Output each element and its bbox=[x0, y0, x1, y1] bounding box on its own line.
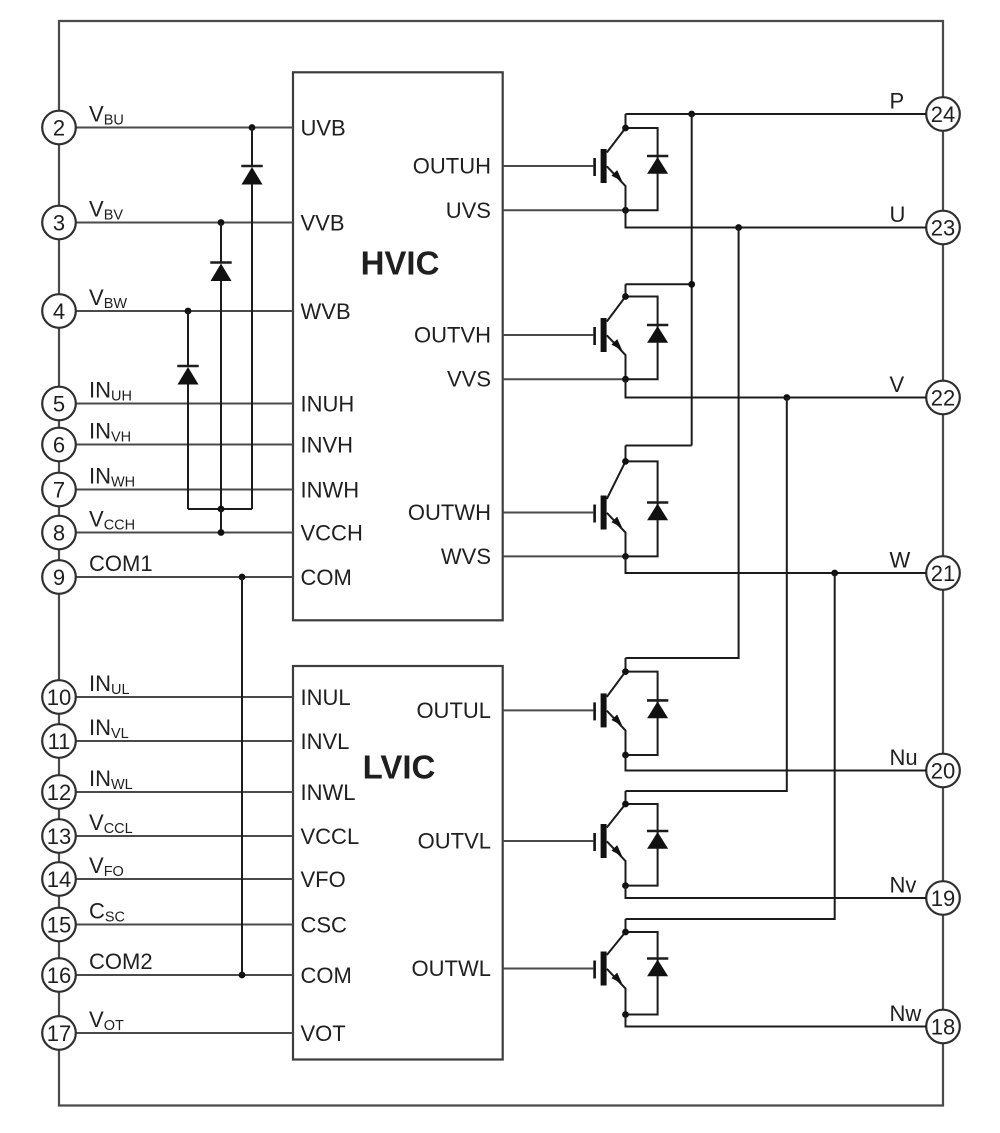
pin 9 terminal circle bbox=[42, 560, 76, 594]
op-amp U2 LVIC box bbox=[293, 666, 503, 1060]
wire Q2 emitter to V rail bbox=[626, 379, 927, 397]
wire gate OUTVH stub bbox=[503, 334, 594, 336]
svg-text:12: 12 bbox=[47, 780, 71, 805]
pin 3 terminal circle bbox=[42, 206, 76, 240]
wire pin14 to IC bbox=[76, 878, 294, 880]
wire pin4 to IC bbox=[76, 310, 294, 312]
svg-text:18: 18 bbox=[931, 1014, 955, 1039]
svg-text:WVB: WVB bbox=[301, 299, 351, 324]
wire pin2 to IC bbox=[76, 127, 294, 129]
node junction U phase bbox=[735, 224, 742, 231]
svg-text:24: 24 bbox=[931, 102, 955, 127]
wire VBW to diode D3 bbox=[187, 311, 189, 366]
svg-text:V: V bbox=[890, 372, 905, 397]
svg-text:INWH: INWH bbox=[301, 478, 360, 503]
wire COM1 to COM2 bbox=[241, 577, 243, 975]
diode D9 freewheel Q6 bbox=[647, 959, 668, 977]
svg-text:VFO: VFO bbox=[301, 867, 346, 892]
svg-text:15: 15 bbox=[47, 912, 71, 937]
svg-text:COM: COM bbox=[301, 565, 352, 590]
wire Q4 emitter to Nu bbox=[626, 755, 927, 771]
transistor Q3 IGBT high-side W bbox=[607, 446, 658, 557]
wire gate OUTWL stub bbox=[503, 968, 594, 970]
svg-text:20: 20 bbox=[931, 758, 955, 783]
wire pin13 to IC bbox=[76, 835, 294, 837]
svg-text:22: 22 bbox=[931, 385, 955, 410]
svg-text:Nu: Nu bbox=[890, 745, 918, 770]
node collector Q3 bbox=[622, 458, 629, 465]
svg-text:Nw: Nw bbox=[890, 1001, 922, 1026]
wire gate OUTUH stub bbox=[503, 165, 594, 167]
svg-text:16: 16 bbox=[47, 963, 71, 988]
wire V phase down bbox=[626, 398, 787, 792]
svg-text:INWL: INWL bbox=[301, 780, 356, 805]
wire VBU to diode D1 bbox=[251, 128, 253, 167]
svg-text:COM1: COM1 bbox=[89, 551, 153, 576]
wire pin9 to IC bbox=[76, 576, 294, 578]
diode D6 freewheel Q3 bbox=[647, 503, 668, 521]
wire pin6 to IC bbox=[76, 444, 294, 446]
node junction on VBU wire bbox=[249, 124, 256, 131]
svg-text:VCCL: VCCL bbox=[301, 824, 360, 849]
pin 21 terminal circle bbox=[926, 556, 960, 590]
svg-text:23: 23 bbox=[931, 215, 955, 240]
diode D8 freewheel Q5 bbox=[647, 831, 668, 849]
pin 15 terminal circle bbox=[42, 908, 76, 942]
wire V cell top rail bbox=[626, 283, 692, 285]
wire Q1 emitter to U rail bbox=[626, 210, 927, 227]
svg-text:OUTWH: OUTWH bbox=[408, 500, 491, 525]
pin 16 terminal circle bbox=[42, 958, 76, 992]
node collector Q2 bbox=[622, 293, 629, 300]
svg-text:7: 7 bbox=[53, 477, 65, 502]
svg-text:COM: COM bbox=[301, 963, 352, 988]
svg-text:OUTUH: OUTUH bbox=[413, 154, 491, 179]
node emitter Q6 bbox=[622, 1011, 629, 1018]
pin 12 terminal circle bbox=[42, 775, 76, 809]
node collector Q1 bbox=[622, 125, 629, 132]
node emitter Q4 bbox=[622, 752, 629, 759]
wire P bus vertical bbox=[691, 114, 693, 446]
wire WVS sense bbox=[503, 555, 626, 557]
transistor Q2 IGBT high-side V bbox=[607, 284, 658, 379]
diode D5 freewheel Q2 bbox=[647, 325, 668, 343]
svg-text:INVH: INVH bbox=[301, 433, 354, 458]
pin 22 terminal circle bbox=[926, 381, 960, 415]
node emitter Q5 bbox=[622, 882, 629, 889]
svg-text:9: 9 bbox=[53, 565, 65, 590]
op-amp U1 HVIC box bbox=[293, 72, 503, 620]
svg-text:VCCH: VCCH bbox=[301, 521, 363, 546]
svg-text:5: 5 bbox=[53, 391, 65, 416]
node junction on VBW wire bbox=[185, 308, 192, 315]
node junction on VCCH wire bbox=[218, 529, 225, 536]
pin 4 terminal circle bbox=[42, 294, 76, 328]
transistor Q4 IGBT low-side U bbox=[607, 658, 658, 755]
wire pin17 to IC bbox=[76, 1032, 294, 1034]
wire pin15 to IC bbox=[76, 924, 294, 926]
svg-text:LVIC: LVIC bbox=[363, 749, 436, 786]
wire gate OUTVL stub bbox=[503, 840, 594, 842]
svg-text:INUH: INUH bbox=[301, 392, 355, 417]
diode D1 bootstrap bbox=[241, 166, 262, 185]
node collector Q6 bbox=[622, 929, 629, 936]
node collector Q5 bbox=[622, 801, 629, 808]
diode D2 bootstrap bbox=[210, 263, 231, 282]
svg-text:OUTUL: OUTUL bbox=[416, 698, 491, 723]
pin 14 terminal circle bbox=[42, 862, 76, 896]
wire D3 anode down bbox=[187, 385, 189, 510]
wire diode-anode bus bbox=[188, 508, 252, 510]
svg-text:OUTVL: OUTVL bbox=[418, 829, 491, 854]
wire pin3 to IC bbox=[76, 222, 294, 224]
transistor Q5 IGBT low-side V bbox=[607, 791, 658, 886]
svg-text:CSC: CSC bbox=[301, 913, 348, 938]
svg-text:19: 19 bbox=[931, 886, 955, 911]
wire Q5 emitter to Nv bbox=[626, 886, 927, 898]
svg-text:21: 21 bbox=[931, 561, 955, 586]
svg-text:4: 4 bbox=[53, 299, 65, 324]
pin 23 terminal circle bbox=[926, 211, 960, 245]
svg-text:VOT: VOT bbox=[301, 1021, 346, 1046]
svg-text:11: 11 bbox=[48, 729, 71, 754]
pin 5 terminal circle bbox=[42, 387, 76, 421]
pin 10 terminal circle bbox=[42, 680, 76, 714]
wire pin12 to IC bbox=[76, 791, 294, 793]
wire anode bus to VCCH bbox=[220, 509, 222, 533]
node emitter Q3 bbox=[622, 553, 629, 560]
wire gate OUTUL stub bbox=[503, 709, 594, 711]
node emitter Q1 bbox=[622, 207, 629, 214]
svg-text:6: 6 bbox=[53, 432, 65, 457]
diode D7 freewheel Q4 bbox=[647, 700, 668, 718]
svg-text:VVB: VVB bbox=[301, 211, 345, 236]
wire D2 anode down bbox=[220, 281, 222, 509]
wire pin8 to IC bbox=[76, 532, 294, 534]
svg-text:10: 10 bbox=[47, 685, 71, 710]
svg-text:U: U bbox=[890, 202, 906, 227]
pin 20 terminal circle bbox=[926, 754, 960, 788]
wire W phase down bbox=[626, 573, 835, 919]
svg-text:UVS: UVS bbox=[446, 198, 491, 223]
pin 18 terminal circle bbox=[926, 1010, 960, 1044]
wire Q6 emitter to Nw bbox=[626, 1015, 927, 1027]
wire W cell top rail bbox=[626, 445, 692, 447]
wire U phase down bbox=[626, 228, 739, 659]
node junction W phase bbox=[831, 570, 838, 577]
wire gate OUTWH stub bbox=[503, 512, 594, 514]
svg-text:INVL: INVL bbox=[301, 729, 350, 754]
svg-text:13: 13 bbox=[47, 824, 71, 849]
wire Q3 emitter to W rail bbox=[626, 556, 927, 573]
node junction anode bus bbox=[218, 506, 225, 513]
svg-text:HVIC: HVIC bbox=[361, 245, 440, 282]
pin 8 terminal circle bbox=[42, 516, 76, 550]
wire pin5 to IC bbox=[76, 403, 294, 405]
node junction P bus bbox=[688, 111, 695, 118]
wire VVS sense bbox=[503, 378, 626, 380]
node junction on COM2 wire bbox=[239, 972, 246, 979]
svg-text:W: W bbox=[890, 548, 911, 573]
pin 7 terminal circle bbox=[42, 473, 76, 507]
wire pin11 to IC bbox=[76, 740, 294, 742]
node junction on VBV wire bbox=[218, 219, 225, 226]
pin 11 terminal circle bbox=[42, 724, 76, 758]
node emitter Q2 bbox=[622, 376, 629, 383]
svg-text:3: 3 bbox=[53, 210, 65, 235]
diode D3 bootstrap bbox=[177, 366, 198, 385]
wire VBV to diode D2 bbox=[220, 223, 222, 263]
pin 6 terminal circle bbox=[42, 428, 76, 462]
svg-text:14: 14 bbox=[47, 867, 71, 892]
pin 24 terminal circle bbox=[926, 97, 960, 131]
svg-text:Nv: Nv bbox=[890, 873, 917, 898]
svg-text:OUTVH: OUTVH bbox=[414, 323, 491, 348]
svg-text:UVB: UVB bbox=[301, 116, 346, 141]
wire P rail bbox=[626, 113, 927, 115]
node junction on COM1 wire bbox=[239, 574, 246, 581]
diode D4 freewheel Q1 bbox=[647, 156, 668, 174]
svg-text:VVS: VVS bbox=[447, 367, 491, 392]
svg-text:OUTWL: OUTWL bbox=[412, 956, 491, 981]
pin 19 terminal circle bbox=[926, 881, 960, 915]
pin 17 terminal circle bbox=[42, 1016, 76, 1050]
transistor Q1 IGBT high-side U bbox=[607, 114, 658, 210]
pin 2 terminal circle bbox=[42, 111, 76, 145]
wire D1 anode down bbox=[251, 184, 253, 509]
svg-text:8: 8 bbox=[53, 520, 65, 545]
wire pin7 to IC bbox=[76, 489, 294, 491]
svg-text:INUL: INUL bbox=[301, 685, 351, 710]
svg-text:COM2: COM2 bbox=[89, 949, 153, 974]
transistor Q6 IGBT low-side W bbox=[607, 919, 658, 1015]
wire pin10 to IC bbox=[76, 696, 294, 698]
node collector Q4 bbox=[622, 668, 629, 675]
wire pin16 to IC bbox=[76, 974, 294, 976]
svg-text:P: P bbox=[890, 89, 905, 114]
svg-text:WVS: WVS bbox=[441, 544, 491, 569]
wire UVS sense bbox=[503, 209, 626, 211]
svg-text:17: 17 bbox=[47, 1021, 71, 1046]
pin 13 terminal circle bbox=[42, 819, 76, 853]
svg-text:2: 2 bbox=[53, 115, 65, 140]
node junction V phase bbox=[783, 394, 790, 401]
node junction V cell to P bus bbox=[688, 281, 695, 288]
